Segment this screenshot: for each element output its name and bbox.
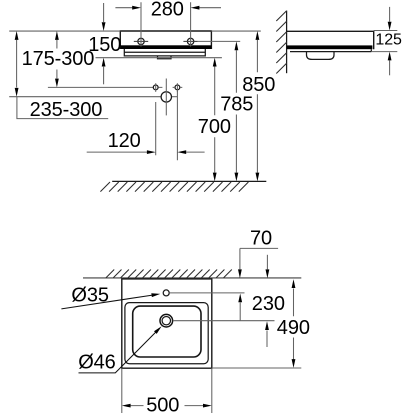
dim 500 [131, 405, 203, 407]
svg-text:490: 490 [277, 317, 310, 339]
dim 490 [293, 289, 295, 360]
dim 700 [214, 67, 216, 173]
trap centerline [165, 79, 167, 116]
dim 120 extension lines [156, 91, 178, 161]
dim 70 landing line [240, 247, 278, 249]
floor hatching [100, 182, 248, 192]
basin bowl plan [133, 306, 201, 357]
svg-text:Ø46: Ø46 [78, 352, 116, 374]
dim 120 arrows [87, 151, 147, 153]
dim 70 lower arrow [239, 303, 241, 321]
svg-text:70: 70 [250, 228, 272, 250]
top reference line (basin top level) left [9, 30, 120, 32]
dim 175-300 bottom arrow [56, 70, 58, 79]
washbasin front lip [124, 49, 205, 56]
dim 70 upper arrow [239, 248, 241, 269]
dim 230 lower arrow [266, 331, 268, 348]
dim 150 bottom arrow [103, 67, 105, 85]
dim 125 extension lines [371, 31, 397, 52]
dim 150 top arrow [103, 3, 105, 22]
dim 490 extension line bottom [212, 367, 301, 369]
svg-text:175-300: 175-300 [22, 48, 95, 70]
svg-text:280: 280 [151, 0, 184, 21]
wall hatching plan view [106, 270, 232, 278]
label O46 leader [79, 331, 158, 373]
drain boss side [307, 52, 335, 60]
reference line 175-300 bottom (to mount hole) [48, 86, 153, 88]
drain centerline right [173, 320, 275, 322]
drain circle outer [160, 314, 173, 327]
svg-text:230: 230 [252, 293, 285, 315]
reference line 235-300 bottom (to trap) [9, 96, 161, 98]
drain circle inner [162, 317, 170, 325]
drain trap circle [161, 92, 171, 102]
svg-text:125: 125 [375, 32, 402, 49]
faucet hole symbol left [138, 38, 144, 44]
dim 175-300 top arrow [56, 40, 58, 49]
dim 280 extension lines [141, 2, 191, 46]
mounting hole right [175, 85, 180, 90]
svg-text:120: 120 [108, 130, 141, 152]
dim 125 arrows [389, 7, 391, 22]
label O35 leader [61, 295, 152, 309]
top reference line right (to 850) [211, 30, 260, 32]
svg-text:235-300: 235-300 [30, 99, 103, 121]
washbasin front bottom thick edge [120, 45, 211, 49]
mounting hole left [153, 85, 158, 90]
svg-text:500: 500 [146, 395, 179, 416]
dim 235-300 label leader [17, 97, 108, 119]
dim 785 extension line (hole level) [198, 40, 240, 42]
washbasin side lip [290, 49, 371, 51]
faucet hole symbol right [187, 38, 193, 44]
basin outer edge plan [122, 278, 212, 368]
svg-text:785: 785 [220, 94, 253, 116]
floor line [112, 180, 266, 182]
dim 235-300 dimension line [16, 40, 18, 88]
dim 785 [235, 50, 237, 172]
svg-text:850: 850 [242, 74, 275, 96]
reference line 150 bottom / 700 top [96, 57, 222, 59]
washbasin front view body [120, 31, 211, 49]
faucet hole plan [163, 290, 169, 296]
wall hatching side view [276, 11, 286, 74]
washbasin side body [287, 31, 374, 49]
dim 230 upper arrow [266, 255, 268, 269]
dim 280 arrow right [198, 7, 221, 9]
wall line side view [286, 11, 288, 74]
dim 500 extension lines [122, 368, 212, 413]
faucet hole centerline right [169, 292, 244, 294]
dim 280 arrow left [115, 7, 133, 9]
svg-text:Ø35: Ø35 [71, 284, 109, 306]
basin rim plan [125, 303, 208, 364]
washbasin side bottom thick edge [287, 45, 373, 49]
svg-text:700: 700 [198, 116, 231, 138]
dim 850 [256, 40, 258, 173]
wall line plan view [83, 277, 301, 279]
drain boss front [158, 56, 172, 59]
